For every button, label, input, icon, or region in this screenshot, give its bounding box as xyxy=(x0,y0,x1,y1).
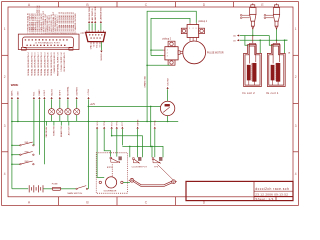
fuse body xyxy=(52,187,61,190)
frame column ticks top xyxy=(58,2,60,7)
wire coil1 riser xyxy=(252,36,254,44)
svg-text:FUSE: FUSE xyxy=(52,183,58,185)
svg-text:TPS2: TPS2 xyxy=(117,121,119,126)
potentiometer BTPS wiper lever xyxy=(111,158,120,162)
throttle cable left lug xyxy=(130,178,134,182)
throttle cable right lug xyxy=(172,180,176,184)
svg-text:pickup 2: pickup 2 xyxy=(163,38,172,40)
wire coil net 1A xyxy=(240,35,270,37)
throttle cable lower strand xyxy=(134,182,173,187)
svg-text:25: 25 xyxy=(74,33,76,35)
wire cluster left drop xyxy=(129,146,131,157)
svg-text:WIPER: WIPER xyxy=(137,119,139,126)
wire pot- drop xyxy=(121,129,123,146)
connector X1 D-sub body xyxy=(23,37,74,48)
wire pickup1 inner loop xyxy=(151,18,190,55)
svg-text:CLUSTER POT: CLUSTER POT xyxy=(132,166,148,168)
wire pickup2 pin2 xyxy=(151,55,163,57)
title block divider row2 xyxy=(254,195,293,197)
junction gauge feed B xyxy=(150,146,152,148)
wire btps left xyxy=(104,129,110,157)
coil IG2 primary pin xyxy=(248,43,250,63)
pickup P2 top ear xyxy=(168,41,175,47)
wire pickup2 pin1 xyxy=(151,49,163,51)
lamp H1 xyxy=(49,109,55,115)
svg-text:TPSW: TPSW xyxy=(155,120,157,126)
svg-text:GND: GND xyxy=(18,91,20,96)
svg-text:SW1: SW1 xyxy=(25,142,29,144)
coil IG1 core dashed xyxy=(274,64,276,81)
svg-text:SIGNAL GROUND PIN 17: SIGNAL GROUND PIN 17 xyxy=(37,52,40,76)
coil IG2 core dashed xyxy=(251,64,253,81)
svg-text:1: 1 xyxy=(27,33,28,35)
wire battery feed xyxy=(12,188,28,190)
connector X1 pin row top xyxy=(24,38,27,41)
coil IG2 outline outer xyxy=(244,45,262,87)
main switch contact left xyxy=(76,188,77,189)
wire coil2 riser xyxy=(276,40,278,43)
junction +12V drop xyxy=(150,106,152,108)
wire sw2 vertical xyxy=(38,99,40,155)
coil IG2 bottom pin right xyxy=(253,81,255,85)
wire gauge feed drop xyxy=(150,106,152,121)
main switch contact right xyxy=(86,188,87,189)
coil IG1 winding right xyxy=(276,63,280,81)
svg-text:CHASSIS GROUND: CHASSIS GROUND xyxy=(74,13,77,32)
wire coil net 1B tail xyxy=(285,39,288,41)
junction pot+ xyxy=(111,135,113,137)
governor motor brush left xyxy=(99,181,101,183)
svg-text:POT-: POT- xyxy=(122,121,124,126)
svg-text:BRAKE SW: BRAKE SW xyxy=(60,126,63,137)
junction rail gauge feed xyxy=(150,121,152,123)
potentiometer CLUSTER POT bottom bracket xyxy=(133,160,137,163)
svg-text:GND: GND xyxy=(91,44,93,49)
svg-text:TPS1: TPS1 xyxy=(104,121,106,126)
switch SW1 lever xyxy=(21,142,33,145)
junction coil1 secondary xyxy=(259,39,261,41)
potentiometer BTPS element block xyxy=(119,157,122,160)
wire sw1 vertical xyxy=(33,99,35,145)
svg-text:WIRE: WIRE xyxy=(11,83,19,87)
wire sw3 vertical xyxy=(43,99,45,164)
throttle cable upper strand xyxy=(134,180,172,185)
gauge arrow top xyxy=(167,87,169,89)
connector X2 pin marks row1 xyxy=(88,33,91,36)
svg-text:23.12.2006 09:13:52: 23.12.2006 09:13:52 xyxy=(255,192,288,196)
svg-text:SIGNAL GROUND PIN 15: SIGNAL GROUND PIN 15 xyxy=(30,52,33,76)
pickup P1 right ear xyxy=(199,28,205,33)
connector X2 trapezoid body xyxy=(86,32,106,41)
injector INJ1 body xyxy=(250,7,256,14)
wire pot+ drop xyxy=(111,129,113,136)
title block sheet box divider xyxy=(275,196,277,200)
injector INJ1 top stub xyxy=(252,3,254,4)
svg-text:2: 2 xyxy=(193,28,194,30)
svg-text:TPS: TPS xyxy=(154,166,159,168)
coil IG1 secondary pin xyxy=(279,43,281,62)
lamp H2 xyxy=(57,109,63,115)
svg-text:1: 1 xyxy=(167,50,168,52)
frame column ticks bottom xyxy=(58,197,60,206)
wire fuse to main switch xyxy=(61,188,76,190)
wire pickup2 bottom ear xyxy=(147,64,170,66)
svg-text:PULSE MOTOR: PULSE MOTOR xyxy=(207,52,224,54)
junction rail gnd xyxy=(17,121,19,123)
lamp H4 xyxy=(74,109,80,115)
pickup P2 bottom ear xyxy=(168,60,175,65)
governor motor brush right xyxy=(121,181,123,183)
svg-text:1: 1 xyxy=(189,28,190,30)
pickup P1 top pins xyxy=(189,23,191,25)
junction pickup2 pin1 xyxy=(150,49,152,51)
svg-text:7: 7 xyxy=(39,33,40,35)
svg-text:6: 6 xyxy=(37,33,38,35)
injector INJ1 left pins xyxy=(242,14,250,16)
title block divider row1 xyxy=(254,190,293,192)
wire governor supply xyxy=(97,129,104,178)
svg-text:1: 1 xyxy=(4,27,6,31)
switch SW2 wire left xyxy=(12,154,20,156)
pickup P1 left ear xyxy=(181,28,187,33)
junction tps left xyxy=(151,146,153,148)
svg-text:START: START xyxy=(38,89,41,96)
junction injector2 net xyxy=(276,39,278,41)
coil IG1 winding left xyxy=(271,65,274,80)
junction rail gauge bottom xyxy=(167,121,169,123)
pulse motor M1 circle xyxy=(183,41,206,64)
svg-text:POT+: POT+ xyxy=(111,120,113,126)
svg-text:2: 2 xyxy=(4,75,6,79)
injector INJ2 cap xyxy=(275,5,279,8)
switch SW3 lever xyxy=(21,161,33,164)
connector X1 outer box xyxy=(18,34,79,49)
frame row ticks left xyxy=(2,54,8,56)
injector INJ2 body xyxy=(273,7,279,14)
pickup P2 body xyxy=(165,47,178,60)
gauge body circle xyxy=(160,101,174,115)
throttle cable right stub xyxy=(176,181,177,183)
svg-text:+12V A: +12V A xyxy=(87,89,90,96)
wire gauge bottom stem xyxy=(167,116,169,122)
svg-text:2: 2 xyxy=(29,33,30,35)
junction batt line SW1 xyxy=(11,145,13,147)
wire coil2 primary left drop xyxy=(269,36,273,46)
junction cluster left xyxy=(129,146,131,148)
connector X1 mounting tab left xyxy=(21,47,26,50)
svg-text:4: 4 xyxy=(33,33,34,35)
svg-text:4: 4 xyxy=(4,172,6,176)
svg-text:IGN SW: IGN SW xyxy=(167,78,169,85)
svg-text:SIGNAL GROUND PIN 14: SIGNAL GROUND PIN 14 xyxy=(27,52,30,76)
wire lamp stems xyxy=(51,99,53,108)
pickup P2 right tab xyxy=(178,51,180,55)
connector X2 pin marks row2 xyxy=(90,37,93,40)
wire batt vertical xyxy=(11,99,13,189)
wire coil1 secondary drop xyxy=(259,40,261,53)
wire main rail xyxy=(12,120,178,122)
junction batt line SW3 xyxy=(11,163,13,165)
svg-text:LIGHT: LIGHT xyxy=(44,89,46,96)
svg-text:TACHO: TACHO xyxy=(50,89,53,96)
svg-text:SW2: SW2 xyxy=(25,152,29,154)
switch SW1 contact right xyxy=(33,145,34,146)
potentiometer BTPS left contact xyxy=(110,157,112,159)
svg-text:GOV+: GOV+ xyxy=(97,120,99,126)
svg-text:3: 3 xyxy=(196,28,197,30)
svg-text:12V AUX RETURN 25: 12V AUX RETURN 25 xyxy=(63,52,66,73)
svg-text:ENGINE TEMP: ENGINE TEMP xyxy=(89,6,91,20)
svg-text:3: 3 xyxy=(31,33,32,35)
svg-text:SIGNAL GROUND PIN 21: SIGNAL GROUND PIN 21 xyxy=(50,52,53,76)
throttle cable left stub xyxy=(129,179,130,181)
switch SW1 wire left xyxy=(12,144,20,146)
wire injector1 down xyxy=(252,29,254,35)
injector INJ1 cap xyxy=(251,5,255,8)
junction batt line SW2 xyxy=(11,154,13,156)
wire wiper drop xyxy=(137,129,139,157)
svg-text:SIGNAL GROUND PIN 16: SIGNAL GROUND PIN 16 xyxy=(34,52,37,76)
supply arrows row2 xyxy=(96,127,98,129)
coil IG1 outline inner xyxy=(269,46,284,85)
coil IG2 secondary pin xyxy=(255,43,257,62)
pickup P2 right pins to motor xyxy=(180,51,183,53)
wire horiz B xyxy=(122,146,163,157)
svg-text:SIGNAL GROUND PIN 20: SIGNAL GROUND PIN 20 xyxy=(47,52,50,76)
potentiometer CLUSTER POT left contact xyxy=(133,158,135,160)
connector X1 pin row bottom xyxy=(26,44,29,47)
injector INJ1 nozzle xyxy=(251,21,254,26)
gauge scale bar xyxy=(165,104,170,106)
wire injector2 down xyxy=(276,29,278,40)
svg-text:5: 5 xyxy=(35,33,36,35)
title block outline xyxy=(186,181,293,200)
junction +12V line start xyxy=(88,106,90,108)
wire coil1 primary left drop xyxy=(245,36,249,46)
injector INJ2 left pins xyxy=(266,14,274,16)
wire coil2 secondary drop xyxy=(284,40,286,53)
coil IG1 pin tie bar xyxy=(273,42,280,44)
svg-text:pickup 1: pickup 1 xyxy=(199,21,208,23)
wire tps wiper drop xyxy=(154,129,156,157)
wire pickup1 outer loop xyxy=(147,11,196,121)
connector X1 mounting tab right xyxy=(69,47,73,50)
svg-text:dccci2ch race.sch: dccci2ch race.sch xyxy=(255,187,289,191)
coil IG1 bottom pin right xyxy=(277,81,279,85)
frame inner border xyxy=(8,7,293,197)
coil IG2 winding right xyxy=(253,63,257,81)
connector X2 top pin stubs xyxy=(86,30,88,32)
injector INJ2 taper xyxy=(273,14,279,21)
wire battery to fuse xyxy=(43,188,52,190)
svg-text:+12V: +12V xyxy=(90,104,96,106)
wire tps left drop xyxy=(151,146,153,157)
governor enclosure dashed box xyxy=(96,153,127,193)
switch SW2 contact right xyxy=(33,154,34,155)
wire gnd vertical xyxy=(17,99,19,121)
wire net stub below X2 xyxy=(100,42,102,51)
frame row ticks right xyxy=(293,54,298,56)
supply arrows row1 xyxy=(11,97,13,99)
svg-text:8: 8 xyxy=(41,33,42,35)
switch SW2 contact left xyxy=(20,154,21,155)
svg-text:SHIELD: SHIELD xyxy=(101,53,103,61)
switch SW2 lever xyxy=(21,152,33,155)
svg-text:3: 3 xyxy=(167,56,168,58)
svg-text:3: 3 xyxy=(295,124,297,128)
injector INJ1 tip xyxy=(252,26,254,29)
wire +12V horizontal xyxy=(89,105,161,107)
coil IG1 bottom pin left xyxy=(272,80,274,85)
svg-text:MAIN SWITCH: MAIN SWITCH xyxy=(68,192,83,195)
battery cells xyxy=(28,185,30,192)
frame outer border xyxy=(2,2,299,206)
junction injector1 net xyxy=(252,35,254,37)
injector INJ1 taper xyxy=(250,14,256,21)
coil IG2 bottom pin left xyxy=(248,80,250,85)
main switch lever xyxy=(77,186,86,189)
switch SW3 contact right xyxy=(33,164,34,165)
wire net stubs above X2 xyxy=(88,23,90,30)
svg-text:12V AUX SUPPLY 24: 12V AUX SUPPLY 24 xyxy=(60,52,63,72)
wire +12V arrow stem and main feed xyxy=(87,99,89,189)
svg-text:SPARE IND: SPARE IND xyxy=(143,76,146,88)
net stubs below rail xyxy=(46,121,48,125)
pickup P2 left pins xyxy=(163,49,165,51)
potentiometer BTPS bottom bracket xyxy=(111,159,118,162)
junction rail pickup wire xyxy=(146,121,148,123)
svg-text:BATTERY SEN: BATTERY SEN xyxy=(94,6,97,20)
svg-text:IG coil 2: IG coil 2 xyxy=(242,91,255,95)
tps mech link xyxy=(158,165,174,181)
wire coil net 1B xyxy=(240,39,288,41)
coil IG2 winding left xyxy=(247,65,250,80)
junction pickup wire bottom ear xyxy=(146,65,148,67)
potentiometer TPS wiper lever xyxy=(153,159,160,163)
connector X2 bottom pin stubs xyxy=(90,42,92,45)
switch SW3 contact left xyxy=(20,164,21,165)
wire horiz A xyxy=(112,136,143,158)
gauge needle xyxy=(163,107,170,112)
svg-text:2: 2 xyxy=(295,75,297,79)
injector INJ2 nozzle xyxy=(275,21,278,26)
governor mech link dashed xyxy=(111,164,113,176)
svg-text:1: 1 xyxy=(295,27,297,31)
coil IG1 outline outer xyxy=(267,45,285,87)
title block divider vertical xyxy=(253,181,255,200)
svg-text:NEUTRAL: NEUTRAL xyxy=(67,86,70,96)
svg-text:FAN RELAY: FAN RELAY xyxy=(45,126,48,138)
svg-text:Sheet: 1/1: Sheet: 1/1 xyxy=(255,197,274,201)
svg-text:LAMBDA SEN: LAMBDA SEN xyxy=(100,7,103,20)
governor motor circle xyxy=(106,177,117,188)
potentiometer TPS bottom bracket xyxy=(153,160,159,163)
svg-text:4: 4 xyxy=(295,172,297,176)
svg-text:IG coil 1: IG coil 1 xyxy=(266,91,279,95)
svg-text:OILPRES: OILPRES xyxy=(76,86,78,95)
switch SW3 wire left xyxy=(12,163,20,165)
svg-text:PERIPHERAL SUPPLY 23: PERIPHERAL SUPPLY 23 xyxy=(57,52,60,77)
svg-text:2: 2 xyxy=(167,53,168,55)
coil IG2 pin tie bar xyxy=(249,42,256,44)
injector INJ2 tip xyxy=(276,26,278,29)
svg-text:SHIFT: SHIFT xyxy=(60,89,62,96)
junction rail batt xyxy=(11,121,13,123)
wire gauge top stem xyxy=(167,89,169,101)
potentiometer TPS element block xyxy=(159,157,162,160)
pickup P1 body xyxy=(187,25,199,38)
wire btps right xyxy=(116,129,118,157)
injector INJ2 top stub xyxy=(276,3,278,4)
junction coil2 right net xyxy=(284,39,286,41)
wire sw1 up link xyxy=(33,144,35,145)
junction +12V rail cross xyxy=(88,121,90,123)
svg-text:HORN SW: HORN SW xyxy=(54,126,56,136)
svg-text:SIGNAL GROUND PIN 19: SIGNAL GROUND PIN 19 xyxy=(43,52,46,76)
svg-text:BATT+: BATT+ xyxy=(11,89,14,96)
pickup P1 bottom pins xyxy=(189,38,191,42)
coil IG2 outline inner xyxy=(245,46,260,85)
svg-text:AUX OUT: AUX OUT xyxy=(68,126,71,136)
junction wiper xyxy=(137,146,139,148)
potentiometer TPS left contact xyxy=(152,158,154,160)
svg-text:SW3: SW3 xyxy=(25,161,29,163)
potentiometer CLUSTER POT wiper lever xyxy=(134,159,140,163)
potentiometer CLUSTER POT element block xyxy=(138,157,141,160)
switch SW1 contact left xyxy=(20,145,21,146)
lamp H3 xyxy=(65,109,71,115)
coil IG1 primary pin xyxy=(272,43,274,63)
svg-text:25 PIN PARALLEL PORT: 25 PIN PARALLEL PORT xyxy=(35,42,61,45)
svg-text:GOVERNOR: GOVERNOR xyxy=(104,190,117,192)
wire gauge feed to B xyxy=(150,121,152,146)
svg-text:AIR TEMP IN: AIR TEMP IN xyxy=(91,8,94,20)
wire main switch to feed riser xyxy=(87,188,90,190)
svg-text:CHASSIS GROUND 22: CHASSIS GROUND 22 xyxy=(53,52,56,74)
svg-text:SIGNAL GROUND PIN 18: SIGNAL GROUND PIN 18 xyxy=(40,52,43,76)
wire governor motor to cable xyxy=(123,181,130,183)
svg-text:3: 3 xyxy=(4,124,6,128)
